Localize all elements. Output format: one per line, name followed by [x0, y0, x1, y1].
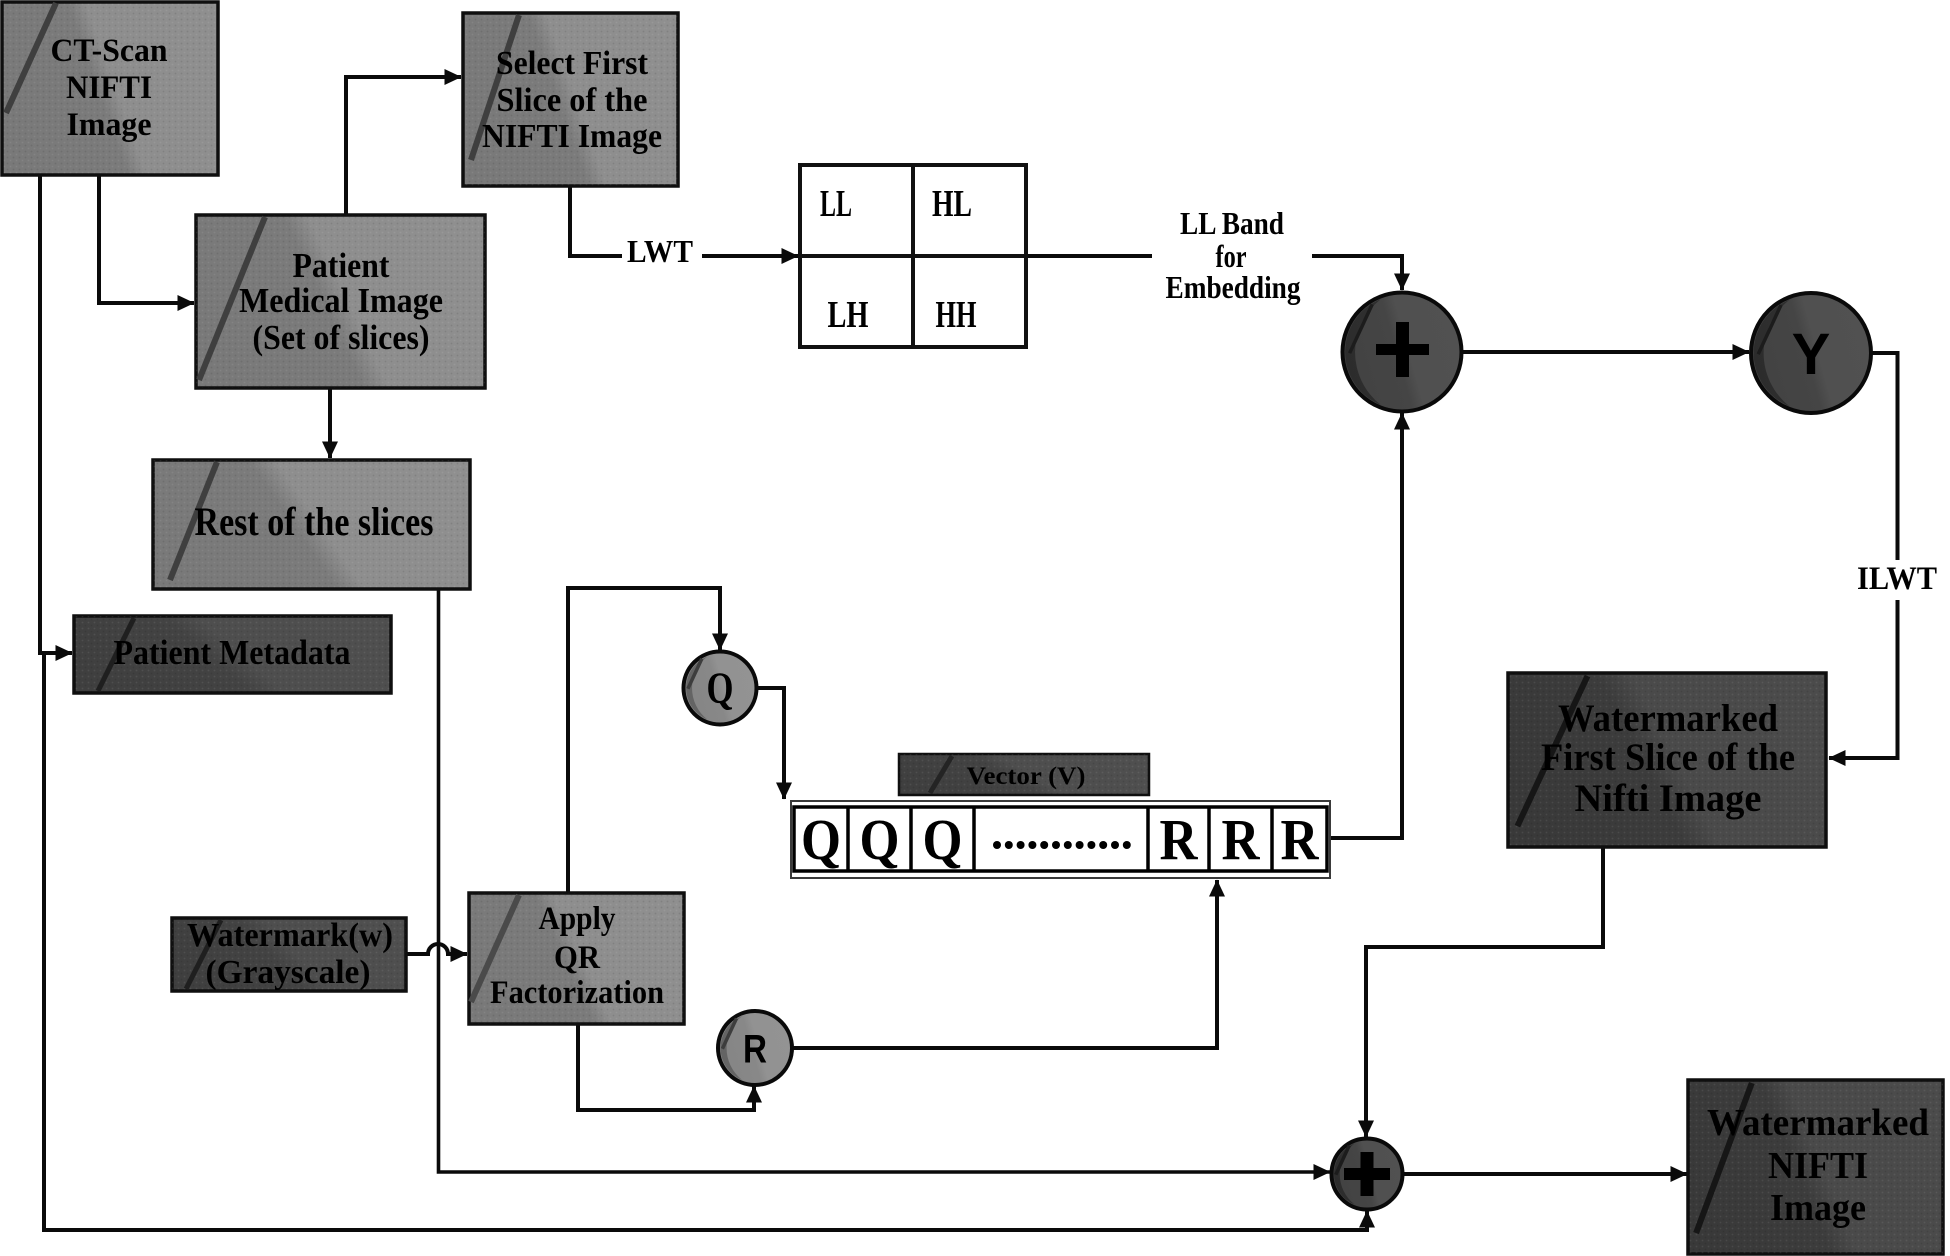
svg-text:Patient Metadata: Patient Metadata	[114, 633, 351, 672]
svg-text:Y: Y	[1792, 322, 1831, 387]
svg-text:Vector (V): Vector (V)	[967, 763, 1086, 790]
svg-text:Embedding: Embedding	[1166, 269, 1301, 305]
svg-text:LH: LH	[828, 294, 869, 336]
svg-text:Watermark(w): Watermark(w)	[187, 917, 393, 954]
svg-text:CT-Scan: CT-Scan	[51, 33, 168, 69]
svg-text:Q: Q	[801, 807, 841, 872]
svg-text:First Slice of the: First Slice of the	[1541, 736, 1795, 779]
svg-text:HH: HH	[936, 294, 977, 336]
svg-text:LL: LL	[820, 183, 852, 225]
svg-text:Select First: Select First	[496, 45, 649, 82]
svg-text:HL: HL	[932, 183, 972, 225]
svg-text:NIFTI Image: NIFTI Image	[482, 118, 662, 155]
svg-text:Image: Image	[67, 107, 152, 143]
svg-text:Watermarked: Watermarked	[1707, 1102, 1929, 1144]
svg-text:NIFTI: NIFTI	[1768, 1145, 1868, 1187]
svg-text:Slice of the: Slice of the	[497, 82, 648, 119]
svg-text:LL Band: LL Band	[1180, 205, 1284, 241]
svg-text:Image: Image	[1770, 1187, 1866, 1229]
svg-text:(Set of slices): (Set of slices)	[253, 318, 430, 357]
svg-text:(Grayscale): (Grayscale)	[206, 954, 371, 991]
svg-text:ILWT: ILWT	[1857, 561, 1937, 597]
svg-text:Watermarked: Watermarked	[1558, 697, 1778, 740]
svg-text:Medical Image: Medical Image	[239, 281, 443, 320]
svg-text:R: R	[743, 1028, 767, 1072]
svg-text:LWT: LWT	[627, 233, 693, 269]
svg-text:QR: QR	[554, 940, 601, 976]
svg-text:Apply: Apply	[539, 901, 616, 937]
svg-text:NIFTI: NIFTI	[66, 70, 152, 106]
svg-text:Rest of the slices: Rest of the slices	[195, 499, 434, 544]
svg-text:Q: Q	[707, 664, 734, 713]
svg-text:R: R	[1281, 807, 1320, 872]
svg-text:Factorization: Factorization	[490, 975, 664, 1011]
svg-text:Q: Q	[860, 807, 900, 872]
svg-text:Patient: Patient	[293, 246, 390, 285]
svg-text:R: R	[1160, 807, 1199, 872]
svg-text:R: R	[1222, 807, 1261, 872]
svg-text:Q: Q	[923, 807, 963, 872]
svg-text:Nifti Image: Nifti Image	[1575, 777, 1762, 820]
